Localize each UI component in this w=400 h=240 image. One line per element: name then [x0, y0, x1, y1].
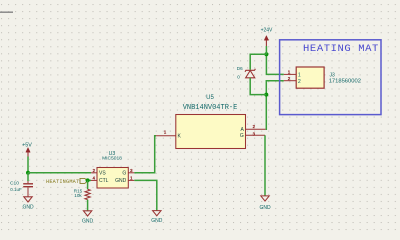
cursor crosshair fragment top-left	[0, 11, 13, 13]
node +5V junction	[26, 171, 30, 175]
diode D6 zener	[237, 66, 256, 79]
svg-text:MIC5018: MIC5018	[102, 156, 122, 162]
wire U3 G up to U5 K	[134, 136, 156, 173]
wire label to U3 CTL	[88, 179, 91, 181]
power +24V	[261, 28, 273, 46]
svg-text:1718560002: 1718560002	[329, 79, 361, 85]
node +24V junction	[264, 52, 268, 56]
wire +24V to J3 pin1	[266, 54, 283, 74]
wire U5 G down to ground	[264, 135, 266, 196]
svg-text:GND: GND	[259, 205, 271, 211]
svg-text:HEATING MAT: HEATING MAT	[303, 43, 379, 55]
svg-text:G: G	[240, 133, 244, 139]
wire +24V down	[265, 46, 267, 54]
svg-text:D6: D6	[237, 66, 243, 71]
svg-text:10k: 10k	[74, 193, 82, 198]
svg-text:GND: GND	[151, 218, 163, 224]
wire +5V to U3 VS	[28, 172, 91, 174]
svg-text:GND: GND	[115, 178, 127, 184]
ground under R15	[82, 211, 94, 225]
svg-text:2: 2	[288, 76, 291, 81]
svg-text:GND: GND	[82, 218, 94, 224]
wire U3 GND down to ground	[134, 180, 157, 210]
svg-text:HEATINGMAT: HEATINGMAT	[46, 179, 79, 185]
svg-text:U5: U5	[206, 95, 214, 101]
svg-text:VS: VS	[99, 171, 106, 177]
svg-text:GND: GND	[22, 204, 34, 210]
svg-text:1: 1	[288, 70, 291, 75]
svg-text:G: G	[122, 171, 126, 177]
svg-text:1: 1	[298, 73, 301, 79]
capacitor C10	[10, 181, 33, 197]
sheet HEATING MAT	[280, 40, 381, 115]
svg-text:2: 2	[298, 79, 301, 85]
ground under U3 GND	[151, 211, 163, 225]
wire diode bottom branch	[250, 78, 266, 95]
IC U3 MIC5018	[91, 151, 134, 188]
resistor R15	[74, 189, 90, 200]
connector J3	[284, 67, 361, 88]
wire U5 A up to switched node	[266, 81, 284, 130]
node CTL junction	[86, 178, 90, 182]
ground under C10	[22, 197, 34, 211]
node diode anode junction	[264, 93, 268, 97]
MOSFET U5 VNB14NV04TR-E	[156, 95, 266, 149]
svg-text:VNB14NV04TR-E: VNB14NV04TR-E	[183, 104, 238, 112]
svg-text:0.1uF: 0.1uF	[10, 187, 22, 192]
svg-text:0: 0	[237, 74, 240, 79]
svg-text:+24V: +24V	[261, 28, 273, 34]
svg-text:CTL: CTL	[99, 178, 109, 184]
wire junction down to C10	[27, 173, 29, 181]
svg-text:+5V: +5V	[22, 142, 32, 148]
wire junction down to R15	[87, 180, 89, 189]
wire +5V down	[27, 157, 29, 173]
ground under U5 G	[259, 196, 271, 211]
svg-text:C10: C10	[10, 181, 19, 187]
power +5V	[22, 142, 32, 156]
hierarchical label HEATINGMAT	[46, 178, 88, 185]
wire R15 to ground	[87, 200, 89, 211]
wire diode top branch	[250, 54, 266, 69]
